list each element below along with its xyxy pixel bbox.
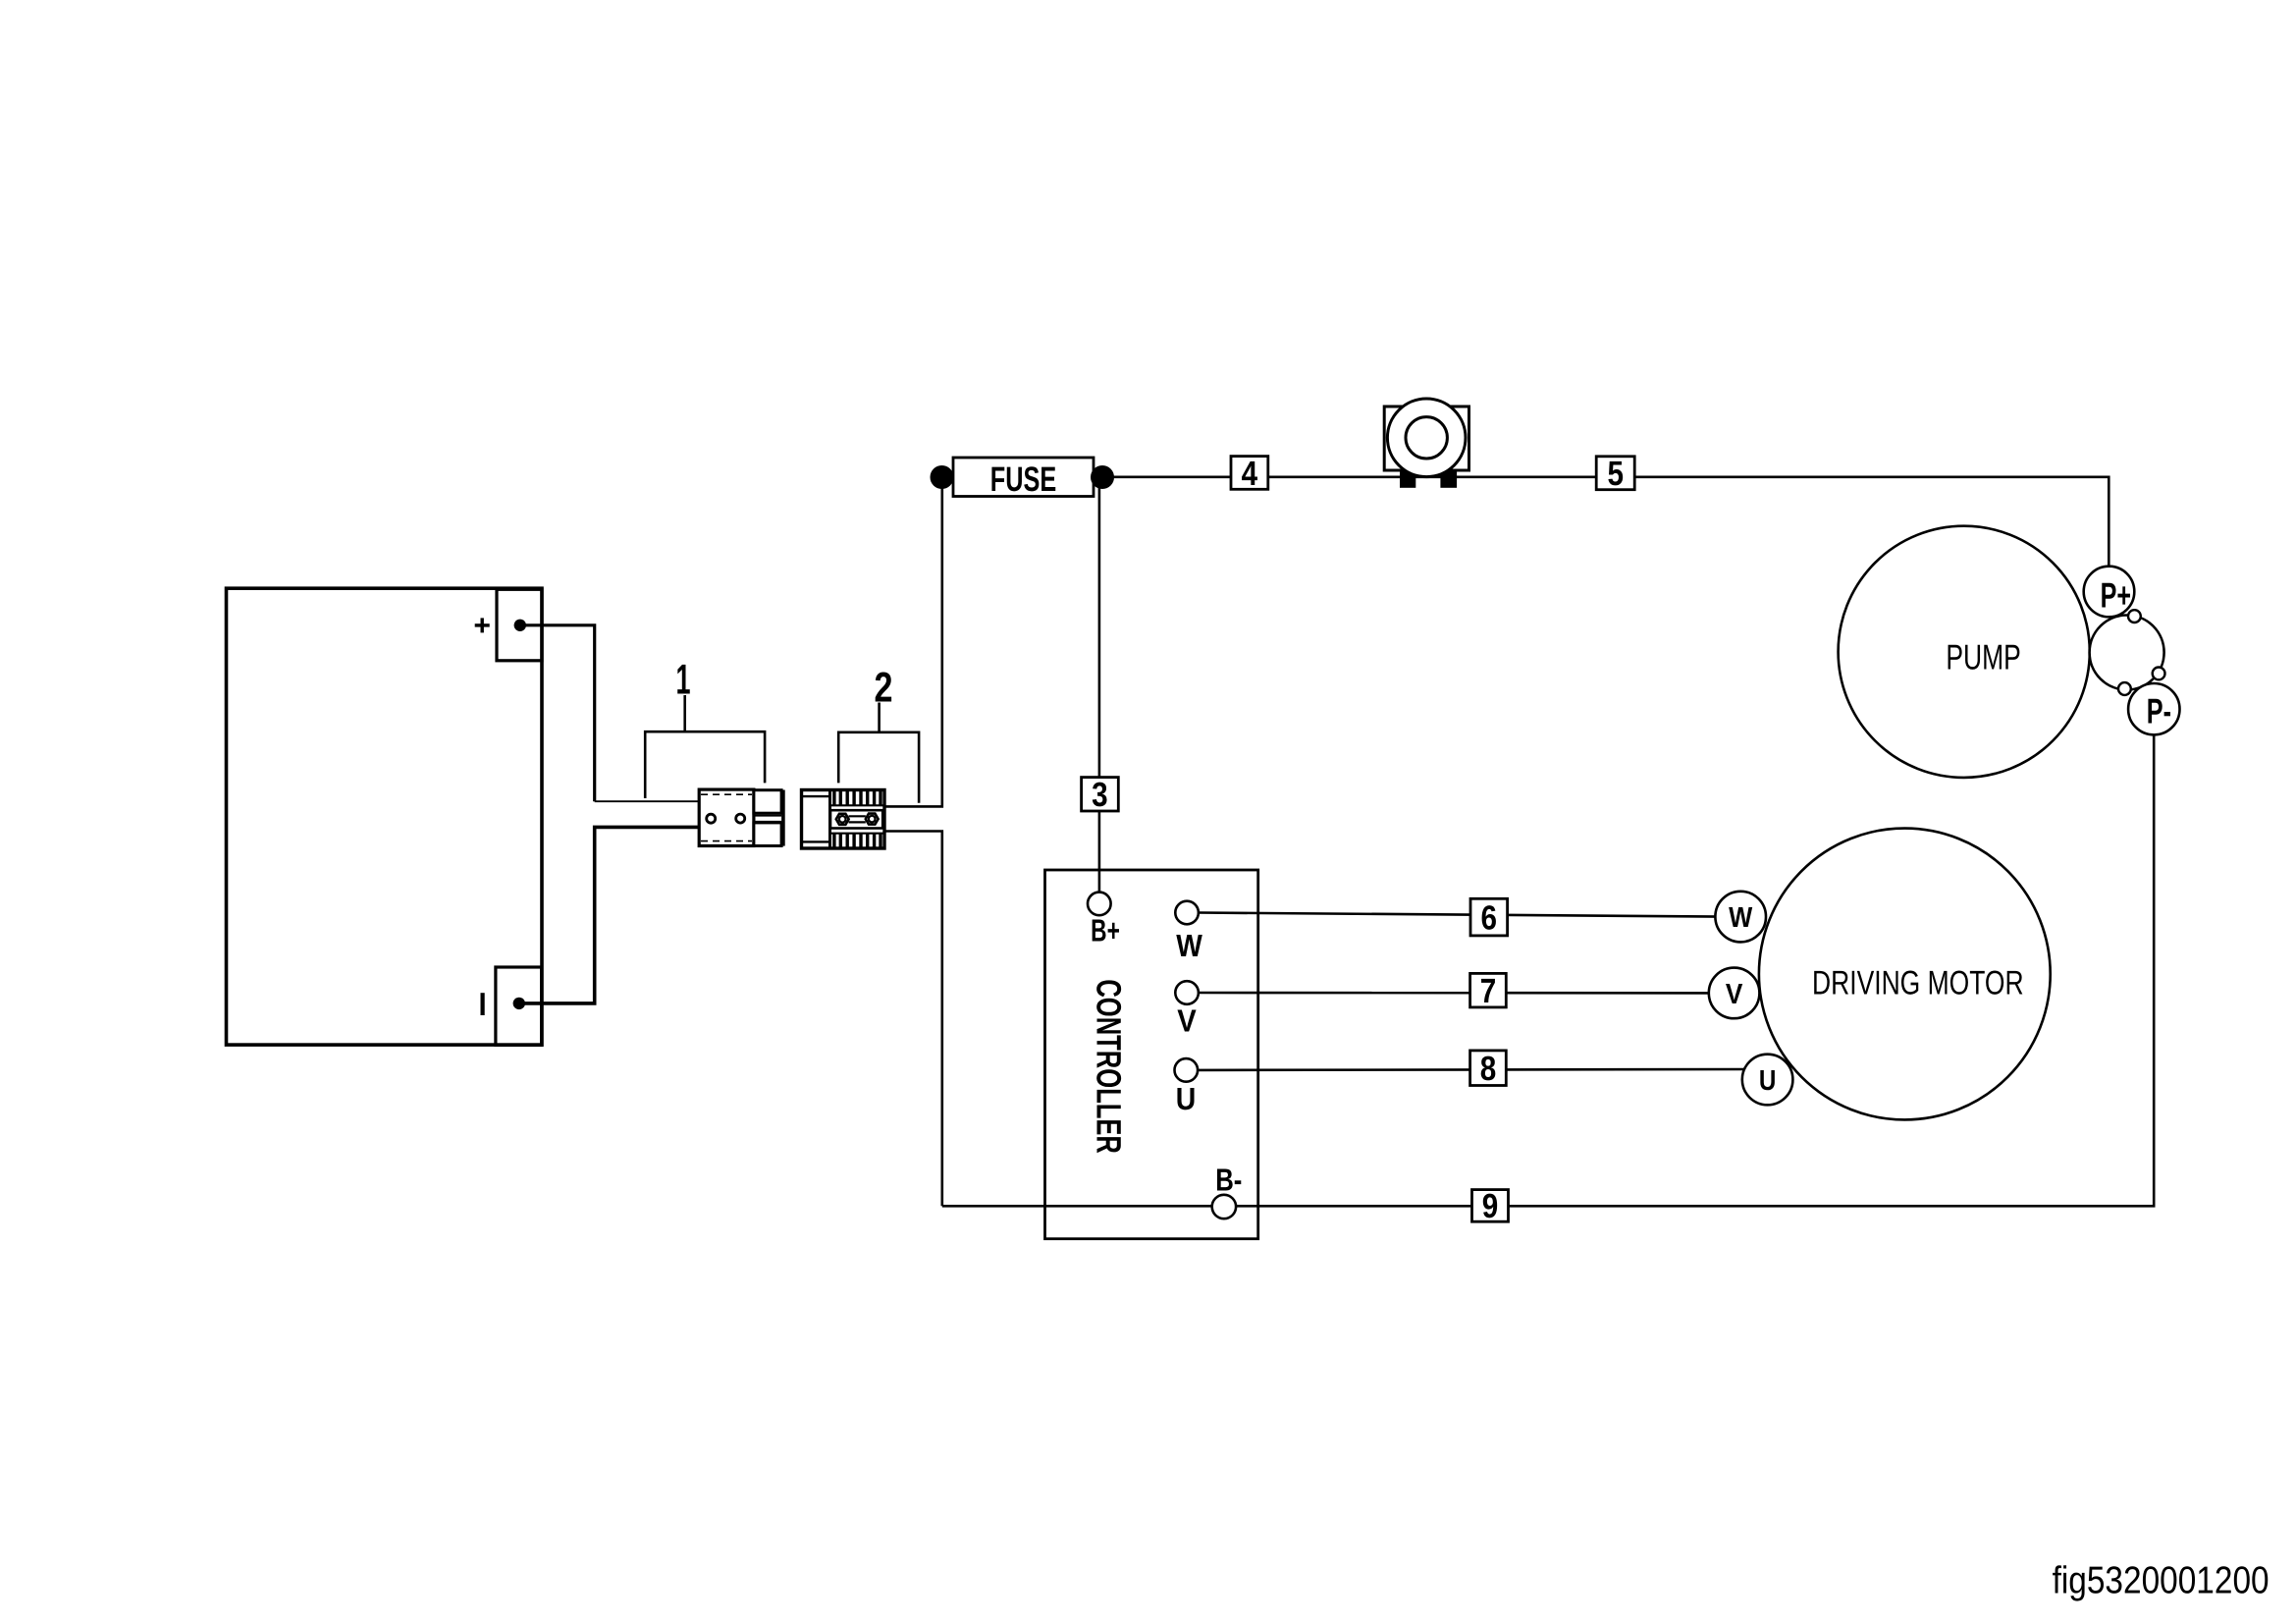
svg-text:2: 2 (875, 665, 893, 712)
emergency stop right foot (1440, 470, 1457, 488)
wire battery minus to connector 1 (519, 827, 699, 1003)
fuse right terminal dot (1091, 465, 1114, 489)
connector 2 left bolt (836, 814, 849, 825)
controller terminal U (1175, 1058, 1199, 1082)
battery positive terminal box (497, 589, 542, 661)
pump coupling circle (2090, 616, 2164, 690)
connector 2 left cap divider (828, 790, 831, 849)
fuse left terminal dot (931, 465, 954, 489)
wire 8 controller U to motor U (1197, 1068, 1747, 1072)
svg-text:B+: B+ (1091, 912, 1120, 947)
label 2 callout (838, 703, 919, 803)
svg-text:1: 1 (676, 656, 691, 703)
wire 7 controller V to motor V (1199, 992, 1713, 995)
connector 1 upper prong (754, 790, 781, 814)
label 1 callout (645, 695, 765, 798)
connector 1 contact holes (707, 814, 716, 823)
label 5 box (1596, 457, 1634, 490)
wire connector 2 to fuse (up) (884, 488, 942, 806)
connector 1 lower prong (754, 823, 781, 846)
label 4 box (1231, 457, 1268, 490)
svg-text:W: W (1176, 928, 1202, 963)
emergency stop button inner circle (1406, 417, 1447, 459)
connector 2 (harness socket) body (802, 790, 885, 849)
pump terminal P- (2128, 683, 2179, 734)
svg-text:CONTROLLER: CONTROLLER (1090, 979, 1128, 1154)
connector 2 bolt link bar (849, 815, 866, 817)
emergency stop button outer circle (1387, 399, 1466, 477)
svg-text:5: 5 (1607, 455, 1624, 493)
wire B- bus to pump P- (942, 736, 2154, 1207)
svg-text:FUSE: FUSE (990, 460, 1056, 499)
emergency stop left foot (1400, 470, 1415, 488)
connector 2 top rib band (834, 791, 881, 806)
fuse F1 box (953, 458, 1094, 497)
svg-text:3: 3 (1092, 776, 1108, 814)
coupling bolt top (2128, 610, 2141, 623)
svg-text:U: U (1759, 1065, 1777, 1097)
motor terminal U (1742, 1055, 1793, 1106)
svg-text:B-: B- (1215, 1162, 1242, 1197)
svg-text:P-: P- (2147, 690, 2171, 731)
svg-text:V: V (1177, 1002, 1197, 1038)
battery plus sign (475, 618, 490, 632)
svg-text:U: U (1176, 1081, 1197, 1116)
svg-text:6: 6 (1481, 898, 1498, 937)
motor terminal V (1709, 968, 1760, 1019)
battery negative terminal box (496, 967, 542, 1045)
connector 2 bottom rib band (834, 834, 881, 848)
emergency stop switch S1 square (1384, 406, 1468, 470)
controller terminal V (1175, 981, 1199, 1004)
label 8 box (1470, 1051, 1507, 1086)
coupling bolt right (2153, 668, 2165, 680)
label 9 box (1472, 1190, 1509, 1222)
controller box (1045, 870, 1258, 1239)
svg-text:7: 7 (1480, 972, 1497, 1010)
connector 2 bolt plate (830, 810, 882, 828)
connector 1 (battery plug) body (699, 789, 754, 845)
connector 1 middle slot (754, 815, 781, 817)
connector 2 right bolt (866, 814, 879, 825)
wire fuse to pump P+ (top bus) (1102, 477, 2109, 568)
wire 6 controller W to motor W (1199, 913, 1720, 917)
wire fuse right dot down to controller B+ (1098, 488, 1101, 893)
driving motor circle (1759, 829, 2051, 1120)
coupling bolt bottom-left (2118, 682, 2131, 695)
controller terminal B+ (1088, 893, 1111, 916)
pump motor circle (1839, 526, 2090, 778)
svg-text:8: 8 (1480, 1050, 1497, 1088)
controller terminal W (1175, 901, 1199, 925)
battery minus sign (rotated) (481, 993, 485, 1015)
svg-text:9: 9 (1482, 1187, 1499, 1225)
svg-text:V: V (1726, 979, 1743, 1010)
wire battery plus to connector 1 (520, 625, 595, 801)
svg-text:4: 4 (1242, 455, 1258, 493)
junction dot battery plus (514, 620, 526, 631)
svg-text:P+: P+ (2101, 575, 2131, 616)
label 6 box (1470, 898, 1508, 936)
motor terminal W (1715, 892, 1766, 943)
label 7 box (1470, 973, 1507, 1007)
junction dot battery minus (513, 998, 525, 1009)
connector 1 right edge bar (781, 790, 785, 846)
label 3 box (1082, 778, 1119, 811)
svg-text:fig5320001200: fig5320001200 (2053, 1560, 2269, 1602)
battery BT1 body (227, 588, 543, 1045)
pump terminal P+ (2084, 567, 2135, 618)
svg-text:W: W (1729, 902, 1753, 934)
controller terminal B- (1212, 1195, 1236, 1218)
wire connector 2 down to B- bus (884, 832, 942, 1207)
svg-text:PUMP: PUMP (1946, 637, 2020, 677)
svg-text:DRIVING MOTOR: DRIVING MOTOR (1812, 964, 2024, 1001)
